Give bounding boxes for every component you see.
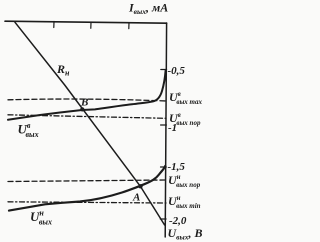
svg-text:А: А (132, 192, 140, 204)
svg-text:В: В (80, 97, 88, 109)
svg-text:-0,5: -0,5 (168, 65, 186, 77)
svg-text:-1,5: -1,5 (168, 161, 186, 173)
